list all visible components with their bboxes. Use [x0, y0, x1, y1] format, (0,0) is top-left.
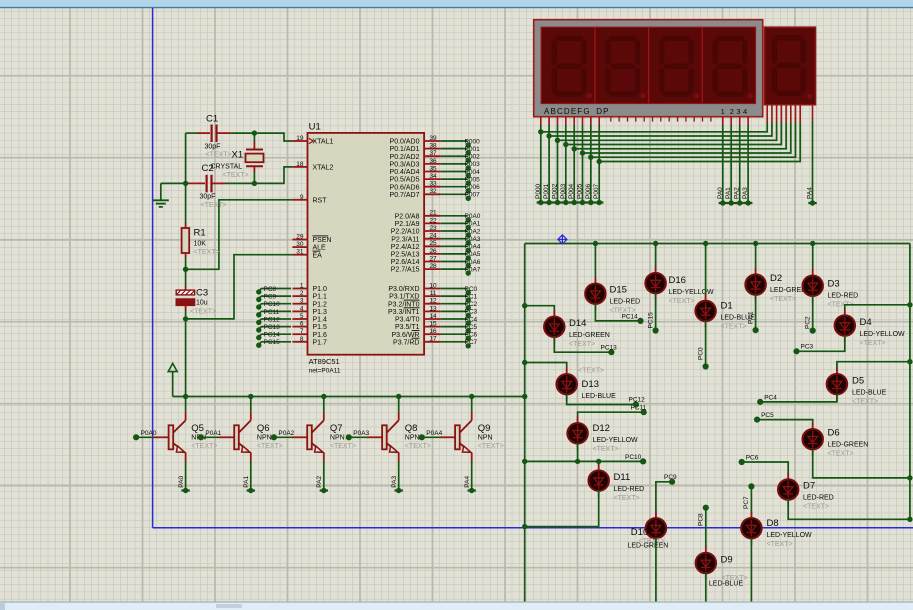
svg-text:LED-BLUE: LED-BLUE	[852, 390, 887, 397]
svg-text:P3.4/T0: P3.4/T0	[395, 317, 420, 324]
terminal PC15	[256, 343, 261, 348]
svg-text:NPN: NPN	[478, 434, 493, 441]
capacitor C3 polarized	[185, 286, 187, 290]
svg-text:P3.0/RXD: P3.0/RXD	[388, 286, 419, 293]
svg-text:LED-BLUE: LED-BLUE	[582, 393, 617, 400]
svg-text:<TEXT>: <TEXT>	[852, 399, 878, 406]
terminal P002	[555, 200, 560, 205]
wire P006	[441, 186, 468, 188]
U1 pin 31 EA	[292, 254, 307, 256]
svg-text:P003: P003	[560, 183, 567, 199]
wire D2 stubs	[755, 268, 757, 275]
svg-text:P2.3/A11: P2.3/A11	[391, 236, 419, 243]
terminal P000	[538, 200, 543, 205]
wire P003	[441, 163, 468, 165]
wire D2 anode	[755, 244, 757, 276]
capacitor C2	[186, 182, 205, 184]
U1 pin 10 P3.0/RXD	[424, 288, 441, 290]
svg-text:<TEXT>: <TEXT>	[569, 341, 595, 348]
wire D14 anode to bus	[525, 306, 555, 318]
wire segment E bus	[573, 117, 575, 126]
wire Q7 emitter to PA2	[323, 462, 325, 491]
svg-text:<TEXT>: <TEXT>	[330, 443, 356, 450]
U1 pin 24 P2.3/A11	[424, 238, 441, 240]
wire D6 anode PC5	[757, 420, 813, 430]
terminal PA2 emitter	[321, 488, 326, 493]
svg-text:13: 13	[429, 305, 437, 312]
wire D9 anode PC8	[705, 508, 707, 553]
U1 XTAL1 clock arrow	[309, 138, 314, 143]
node P0A0 base	[133, 434, 139, 440]
terminal PC0	[466, 290, 471, 295]
svg-text:P3.7/RD: P3.7/RD	[393, 339, 419, 346]
svg-text:P0.6/AD6: P0.6/AD6	[390, 184, 420, 191]
svg-text:Q9: Q9	[478, 423, 491, 434]
terminal P006	[588, 200, 593, 205]
U1 pin 30 ALE	[292, 246, 307, 248]
wire EA net	[186, 255, 293, 319]
svg-text:P0A3: P0A3	[353, 430, 369, 437]
wire PA1 digit select	[730, 117, 732, 126]
wire D14 stubs	[553, 310, 555, 317]
node P0A3 base	[346, 434, 352, 440]
svg-text:D11: D11	[614, 472, 631, 483]
svg-text:D7: D7	[803, 481, 815, 492]
svg-text:<TEXT>: <TEXT>	[828, 451, 854, 458]
U1 pin 22 P2.1/A9	[424, 222, 441, 224]
wire PA4 single display common	[812, 105, 814, 120]
terminal PA3	[745, 200, 750, 205]
wire P005	[441, 178, 468, 180]
wire right bus	[909, 244, 911, 520]
svg-text:10: 10	[429, 282, 437, 289]
wire D13 cathode PC12	[567, 394, 636, 405]
wire crystal bottom / XTAL2 net	[253, 172, 255, 183]
transistor Q5	[136, 436, 154, 438]
terminal PC13	[256, 327, 261, 332]
wire D10 stubs	[655, 511, 657, 518]
svg-text:LED-YELLOW: LED-YELLOW	[860, 331, 906, 338]
svg-text:32: 32	[429, 188, 437, 195]
wire P000	[441, 140, 468, 142]
wire D15 cathode PC14	[595, 303, 640, 321]
svg-text:P2.7/A15: P2.7/A15	[391, 267, 420, 274]
svg-text:<TEXT>: <TEXT>	[669, 298, 695, 305]
terminal P004	[466, 173, 471, 178]
svg-text:36: 36	[429, 158, 437, 165]
svg-text:<TEXT>: <TEXT>	[770, 296, 796, 303]
U1 pin 34 P0.5/AD5	[424, 178, 441, 180]
svg-text:5: 5	[300, 313, 304, 320]
svg-text:25: 25	[429, 240, 437, 247]
U1 pin 23 P2.2/A10	[424, 230, 441, 232]
svg-text:6: 6	[300, 321, 304, 328]
terminal PC12	[256, 320, 261, 325]
wire PC0	[441, 288, 468, 290]
svg-text:PC11: PC11	[264, 309, 280, 316]
wire D4 cathode PC3	[797, 335, 845, 351]
terminal PA1 emitter	[248, 488, 253, 493]
svg-text:P2.5/A13: P2.5/A13	[391, 252, 420, 259]
svg-text:10u: 10u	[196, 300, 208, 307]
svg-text:PC13: PC13	[601, 345, 618, 352]
svg-text:U1: U1	[309, 122, 321, 133]
svg-text:AT89C51: AT89C51	[309, 357, 340, 366]
svg-text:22: 22	[429, 217, 437, 224]
wire D13 anode to bus	[525, 363, 567, 375]
svg-text:Q5: Q5	[191, 423, 204, 434]
bottom window strip	[0, 603, 913, 610]
ground	[153, 199, 169, 201]
svg-text:<TEXT>: <TEXT>	[223, 172, 249, 179]
terminal P0A0	[466, 217, 471, 222]
svg-text:<TEXT>: <TEXT>	[578, 368, 604, 375]
svg-text:PC1: PC1	[465, 293, 478, 300]
wire P0A7	[441, 268, 468, 270]
wire P0A4	[441, 245, 468, 247]
svg-text:DP: DP	[596, 107, 609, 116]
U1 pin 3 P1.2	[292, 303, 307, 305]
svg-text:PC1: PC1	[747, 311, 754, 324]
svg-text:PC10: PC10	[264, 301, 281, 308]
svg-text:P0A6: P0A6	[465, 259, 481, 266]
svg-text:<TEXT>: <TEXT>	[190, 309, 216, 316]
wire D11 stubs	[598, 464, 600, 471]
svg-text:D14: D14	[569, 318, 586, 329]
svg-text:<TEXT>: <TEXT>	[194, 249, 220, 256]
svg-text:RST: RST	[313, 197, 328, 204]
svg-text:PA3: PA3	[742, 187, 749, 199]
svg-text:C2: C2	[202, 163, 214, 174]
U1 pin 8 P1.7	[292, 341, 307, 343]
wire D5 anode to right bus	[837, 362, 910, 375]
junction crystal top	[252, 130, 257, 135]
wire D5 cathode PC4	[760, 394, 837, 402]
svg-text:12: 12	[429, 298, 437, 305]
junction D16 rail	[653, 241, 658, 246]
wire segment C bus	[557, 117, 559, 126]
svg-text:P002: P002	[552, 183, 559, 199]
terminal PC9	[256, 297, 261, 302]
display DS1 4-digit 7-segment frame	[534, 20, 763, 117]
svg-text:P000: P000	[465, 138, 481, 145]
svg-text:PSEN: PSEN	[313, 237, 332, 244]
wire D9 cathode	[705, 573, 707, 602]
svg-text:PC7: PC7	[743, 496, 750, 509]
junction D15 rail	[593, 241, 598, 246]
svg-text:PA2: PA2	[316, 476, 323, 488]
svg-text:LED-YELLOW: LED-YELLOW	[593, 437, 639, 444]
wire D12 cathode	[577, 443, 579, 462]
wire PC8	[259, 289, 291, 291]
svg-text:PC8: PC8	[264, 286, 277, 293]
svg-text:P003: P003	[465, 161, 481, 168]
svg-text:LED-RED: LED-RED	[614, 486, 645, 493]
svg-text:P1.6: P1.6	[313, 332, 328, 339]
svg-text:P0A4: P0A4	[465, 244, 481, 251]
wire D12 stubs	[577, 417, 579, 424]
wire XTAL1 net	[186, 132, 197, 134]
U1 pin 2 P1.1	[292, 295, 307, 297]
svg-text:4: 4	[300, 305, 304, 312]
svg-text:34: 34	[429, 173, 437, 180]
wire D4 stubs	[844, 309, 846, 316]
wire D10 cathode	[655, 538, 657, 602]
junction P003	[563, 142, 568, 147]
svg-text:P006: P006	[585, 183, 592, 199]
wire RST net	[186, 200, 293, 269]
svg-text:30: 30	[296, 241, 304, 248]
wire D8 anode PC7	[750, 486, 752, 518]
svg-text:XTAL2: XTAL2	[313, 165, 334, 172]
junction Q5 collector	[183, 394, 188, 399]
LED D5 LED-BLUE	[827, 374, 847, 394]
transistor Q9	[422, 436, 441, 438]
U1 pin 35 P0.4/AD4	[424, 171, 441, 173]
wire Q9 emitter to PA4	[471, 462, 473, 491]
node P0A1 base	[198, 434, 204, 440]
svg-text:18: 18	[296, 161, 304, 168]
display DS1 unconnected pin stubs	[610, 117, 612, 122]
wire P0A5	[441, 253, 468, 255]
terminal P005	[466, 180, 471, 185]
svg-text:PC6: PC6	[465, 332, 478, 339]
svg-text:P0A2: P0A2	[465, 228, 481, 235]
svg-text:3: 3	[300, 298, 304, 305]
U1 pin 6 P1.5	[292, 326, 307, 328]
svg-text:D8: D8	[767, 518, 779, 529]
terminal P002	[466, 158, 471, 163]
terminal PA3 emitter	[396, 488, 401, 493]
LED D11 LED-RED	[589, 470, 609, 490]
junction P001	[546, 133, 551, 138]
svg-text:D2: D2	[770, 273, 782, 284]
crystal X1	[253, 142, 255, 150]
svg-text:9: 9	[300, 194, 304, 201]
svg-text:PC2: PC2	[465, 301, 478, 308]
svg-text:X1: X1	[232, 150, 244, 161]
wire C2 to ground	[161, 182, 186, 184]
svg-text:XTAL1: XTAL1	[313, 139, 334, 146]
svg-text:P1.7: P1.7	[313, 339, 328, 346]
svg-text:30pF: 30pF	[205, 144, 221, 151]
terminal PC2	[466, 305, 471, 310]
U1 pin 11 P3.1/TXD	[424, 295, 441, 297]
svg-text:<TEXT>: <TEXT>	[257, 443, 283, 450]
junction P006	[588, 155, 593, 160]
svg-text:<TEXT>: <TEXT>	[191, 443, 217, 450]
U1 pin 13 P3.3/INT1	[424, 310, 441, 312]
svg-text:<TEXT>: <TEXT>	[201, 202, 227, 209]
svg-text:<TEXT>: <TEXT>	[478, 443, 504, 450]
terminal P001	[466, 150, 471, 155]
wire P0A0	[441, 215, 468, 217]
U1 pin 7 P1.6	[292, 333, 307, 335]
wire D8 cathode	[750, 538, 752, 602]
svg-text:21: 21	[429, 210, 437, 217]
svg-text:PC15: PC15	[647, 312, 654, 329]
svg-text:ALE: ALE	[313, 245, 327, 252]
junction crystal bottom	[252, 181, 257, 186]
svg-text:PA0: PA0	[178, 476, 185, 488]
LED D16 LED-YELLOW	[645, 273, 665, 293]
wire segment B bus	[548, 117, 550, 126]
LED D10 LED-GREEN	[646, 518, 666, 538]
svg-text:P001: P001	[543, 183, 550, 199]
U1 pin 18 XTAL2	[292, 166, 307, 168]
terminal P0A4	[466, 248, 471, 253]
wire segment DP bus	[598, 117, 600, 126]
svg-text:P3.3/INT1: P3.3/INT1	[388, 309, 420, 316]
svg-text:PC0: PC0	[465, 286, 478, 293]
svg-text:PC9: PC9	[264, 294, 277, 301]
LED D15 LED-RED	[585, 284, 605, 304]
svg-text:P0A3: P0A3	[465, 236, 481, 243]
terminal PC5	[466, 328, 471, 333]
svg-text:16: 16	[429, 328, 437, 335]
wire D3 stubs	[812, 269, 814, 276]
svg-text:LED-GREEN: LED-GREEN	[628, 543, 669, 550]
wire D8 stubs	[750, 511, 752, 518]
wire D14 cathode PC13	[554, 336, 611, 352]
wire D7 stubs	[787, 473, 789, 480]
svg-text:PC7: PC7	[465, 339, 478, 346]
svg-text:28: 28	[429, 263, 437, 270]
svg-text:Q7: Q7	[330, 423, 343, 434]
svg-text:39: 39	[429, 135, 437, 142]
wire PC6	[441, 333, 468, 335]
wire segment F bus	[582, 117, 584, 126]
svg-text:<TEXT>: <TEXT>	[803, 504, 829, 511]
svg-text:CRYSTAL: CRYSTAL	[211, 164, 243, 171]
U1 pin 4 P1.3	[292, 310, 307, 312]
junction C2-gnd	[183, 181, 188, 186]
display DS1 digit separator	[701, 27, 703, 103]
wire P0A6	[441, 261, 468, 263]
junction C3 bottom	[183, 316, 188, 321]
terminal PA4 emitter	[469, 488, 474, 493]
wire P0A2	[441, 230, 468, 232]
terminal PC8	[256, 289, 261, 294]
wire PC1	[441, 295, 468, 297]
svg-text:LED-RED: LED-RED	[803, 495, 834, 502]
svg-text:D1: D1	[721, 301, 733, 312]
wire Q5 collector	[185, 397, 187, 413]
LED D2 LED-GREEN	[745, 274, 765, 294]
wire D6 cathode to right bus	[813, 449, 910, 478]
svg-text:P2.0/A8: P2.0/A8	[395, 213, 420, 220]
wire P002	[441, 155, 468, 157]
junction D1 rail	[703, 241, 708, 246]
wire P004	[441, 171, 468, 173]
LED D3 LED-RED	[803, 276, 823, 296]
junction P002	[555, 138, 560, 143]
junction Q8 collector	[396, 394, 401, 399]
wire D7 anode PC6	[742, 462, 789, 480]
svg-text:P0A5: P0A5	[465, 251, 481, 258]
svg-text:8: 8	[300, 336, 304, 343]
svg-text:14: 14	[429, 313, 437, 320]
terminal P004	[572, 200, 577, 205]
svg-text:D3: D3	[828, 279, 840, 290]
wire anode top rail	[525, 243, 910, 245]
terminal PC1	[466, 297, 471, 302]
terminal P0A1	[466, 225, 471, 230]
junction collector rail to bus	[522, 394, 527, 399]
wire D16 stubs	[655, 266, 657, 273]
junction P004	[572, 146, 577, 151]
svg-text:38: 38	[429, 143, 437, 150]
wire Q7 collector	[323, 397, 325, 413]
junction D3 rail	[810, 241, 815, 246]
svg-text:<TEXT>: <TEXT>	[206, 152, 232, 159]
svg-text:PC14: PC14	[622, 313, 639, 320]
wire D16 cathode PC15	[655, 293, 657, 331]
svg-text:C3: C3	[196, 288, 208, 299]
svg-text:<TEXT>: <TEXT>	[614, 495, 640, 502]
LED D8 LED-YELLOW	[741, 518, 761, 538]
svg-text:P0.2/AD2: P0.2/AD2	[390, 154, 420, 161]
svg-text:net=P0A11: net=P0A11	[309, 368, 341, 375]
svg-text:P0A7: P0A7	[465, 266, 481, 273]
terminal PC3	[466, 313, 471, 318]
svg-text:NPN: NPN	[330, 434, 345, 441]
U1 pin 16 P3.6/WR	[424, 333, 441, 335]
svg-text:P001: P001	[465, 146, 481, 153]
U1 pin 27 P2.6/A14	[424, 261, 441, 263]
wire D9 stubs	[705, 546, 707, 553]
svg-text:NPN: NPN	[257, 434, 272, 441]
U1 pin 32 P0.7/AD7	[424, 193, 441, 195]
svg-text:PC6: PC6	[746, 454, 759, 461]
svg-text:17: 17	[429, 336, 437, 343]
node P0A2 base	[271, 434, 277, 440]
wire P0A1	[441, 222, 468, 224]
wire D6 stubs	[812, 422, 814, 429]
LED D1 LED-BLUE	[695, 301, 715, 321]
svg-text:P004: P004	[568, 183, 575, 199]
terminal PC6	[466, 336, 471, 341]
terminal PA1	[729, 200, 734, 205]
wire D5 stubs	[836, 367, 838, 374]
terminal P003	[563, 200, 568, 205]
U1 pin 28 P2.7/A15	[424, 268, 441, 270]
svg-text:C1: C1	[206, 114, 218, 125]
capacitor C1	[197, 132, 210, 134]
LED D9 LED-BLUE	[696, 553, 716, 573]
terminal P007	[466, 196, 471, 201]
LED D6 LED-GREEN	[803, 429, 823, 449]
U1 pin 1 P1.0	[292, 288, 307, 290]
wire PC12	[259, 319, 291, 321]
svg-text:19: 19	[296, 135, 304, 142]
svg-text:P007: P007	[593, 183, 600, 199]
terminal P003	[466, 165, 471, 170]
svg-text:2: 2	[300, 290, 304, 297]
svg-text:P0.7/AD7: P0.7/AD7	[390, 192, 420, 199]
svg-text:31: 31	[296, 249, 304, 256]
svg-text:D12: D12	[593, 423, 610, 434]
svg-text:<TEXT>: <TEXT>	[860, 340, 886, 347]
svg-text:D5: D5	[852, 376, 864, 387]
wire Q8 emitter to PA3	[398, 462, 400, 491]
svg-text:D9: D9	[721, 555, 733, 566]
terminal P001	[546, 200, 551, 205]
svg-text:P0A1: P0A1	[465, 221, 481, 228]
svg-text:PC10: PC10	[625, 454, 642, 461]
svg-text:234: 234	[730, 107, 750, 116]
terminal PA0	[720, 200, 725, 205]
